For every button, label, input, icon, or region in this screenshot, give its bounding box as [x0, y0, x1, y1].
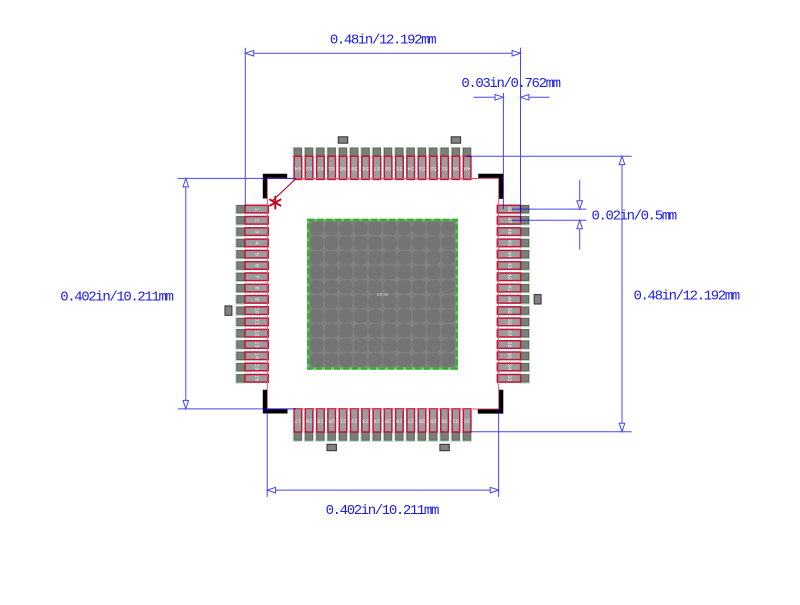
reference line pin 48 center [512, 208, 587, 210]
svg-text:33: 33 [506, 375, 512, 381]
pad 32 (pin 32) [462, 409, 472, 441]
pad 61 (pin 61) [327, 147, 336, 180]
dimension line: horizontal lead span 0.48in/12.192mm (top) [245, 50, 520, 56]
pad 7 (pin 7) [236, 272, 268, 282]
pad 54 (pin 54) [406, 147, 415, 180]
svg-text:62: 62 [317, 165, 323, 171]
extension line right of bottom dimension [498, 409, 500, 497]
svg-text:37: 37 [506, 330, 512, 336]
pad 40 (pin 40) [497, 295, 529, 305]
pad 39 (pin 39) [497, 306, 529, 316]
extension line top of left dimension [178, 177, 296, 179]
pad 64 (pin 64) [293, 147, 302, 180]
pin-1 indicator line [272, 179, 296, 201]
svg-text:0.02in/0.5mm: 0.02in/0.5mm [592, 209, 677, 225]
dimension line: package body width 0.402in/10.211mm (bottom) [267, 487, 498, 493]
pad 51 (pin 51) [440, 147, 449, 180]
pad 29 (pin 29) [429, 409, 439, 441]
svg-text:32: 32 [464, 417, 470, 423]
pad 49 (pin 49) [462, 147, 471, 180]
pad 2 (pin 2) [236, 216, 268, 226]
orientation tick pin 10 (left) [225, 306, 232, 315]
svg-text:23: 23 [362, 417, 368, 423]
pad 31 (pin 31) [451, 409, 461, 441]
pad 11 (pin 11) [236, 317, 268, 327]
svg-text:31: 31 [453, 417, 459, 423]
svg-text:10: 10 [254, 307, 260, 313]
pad 19 (pin 19) [316, 409, 326, 441]
corner bracket top-left [265, 176, 287, 199]
pad 48 (pin 48) [497, 204, 529, 214]
pad 3 (pin 3) [236, 227, 268, 237]
pad 27 (pin 27) [406, 409, 416, 441]
svg-text:19: 19 [317, 417, 323, 423]
svg-text:0.48in/12.192mm: 0.48in/12.192mm [330, 33, 436, 49]
pad 10 (pin 10) [236, 306, 268, 316]
svg-text:3: 3 [254, 230, 260, 233]
svg-text:60: 60 [340, 165, 346, 171]
extension line left of bottom dimension [266, 409, 268, 497]
pad 56 (pin 56) [383, 147, 392, 180]
EPAD courtyard outline (green dashed) [308, 220, 457, 369]
orientation tick pin 30 (bottom) [440, 444, 449, 450]
svg-text:0.402in/10.211mm: 0.402in/10.211mm [60, 289, 173, 305]
svg-text:0.03in/0.762mm: 0.03in/0.762mm [461, 76, 560, 92]
svg-text:35: 35 [506, 353, 512, 359]
svg-text:45: 45 [506, 240, 512, 246]
pin-1 marker asterisk [270, 197, 280, 209]
svg-text:28: 28 [419, 417, 425, 423]
svg-text:41: 41 [506, 285, 512, 291]
pad 57 (pin 57) [372, 147, 381, 180]
svg-text:64: 64 [295, 165, 301, 171]
extension line left of top dimension [244, 48, 246, 206]
pad 58 (pin 58) [361, 147, 370, 180]
pad 43 (pin 43) [497, 261, 529, 271]
pad 42 (pin 42) [497, 272, 529, 282]
svg-text:9: 9 [254, 298, 260, 301]
svg-text:21: 21 [340, 417, 346, 423]
svg-text:16: 16 [254, 375, 260, 381]
svg-text:24: 24 [374, 417, 380, 423]
svg-text:43: 43 [506, 262, 512, 268]
dimension line: vertical lead span 0.48in/12.192mm (right) [619, 156, 625, 432]
extension line top of right dimension [467, 155, 632, 157]
pad 28 (pin 28) [417, 409, 427, 441]
reference line pin 47 center [512, 219, 587, 221]
svg-text:17: 17 [295, 417, 301, 423]
pad 53 (pin 53) [417, 147, 426, 180]
extension line for 0.03in dimension [502, 93, 504, 209]
pad 9 (pin 9) [236, 295, 268, 305]
pad 15 (pin 15) [236, 362, 268, 372]
svg-text:7: 7 [254, 275, 260, 278]
svg-text:22: 22 [351, 417, 357, 423]
svg-text:11: 11 [254, 319, 260, 325]
pad 33 (pin 33) [497, 374, 529, 384]
svg-text:5: 5 [254, 253, 260, 256]
orientation tick pin 50 (top) [451, 137, 460, 143]
pad 4 (pin 4) [236, 238, 268, 248]
svg-text:14: 14 [254, 353, 260, 359]
pad 1 (pin 1) [236, 204, 268, 214]
pad 14 (pin 14) [236, 351, 268, 361]
pad 63 (pin 63) [304, 147, 313, 180]
svg-text:13: 13 [254, 341, 260, 347]
svg-text:55: 55 [396, 165, 402, 171]
svg-text:40: 40 [506, 296, 512, 302]
pad 60 (pin 60) [338, 147, 347, 180]
svg-text:56: 56 [385, 165, 391, 171]
svg-text:42: 42 [506, 274, 512, 280]
svg-text:46: 46 [506, 228, 512, 234]
package body outline (silkscreen) [267, 179, 498, 410]
pad 22 (pin 22) [350, 409, 360, 441]
exposed pad EPAD (thermal pad with via grid) [308, 220, 457, 369]
dimension line: 0.03in/0.762mm lead length (top right) [474, 95, 550, 101]
svg-text:53: 53 [419, 165, 425, 171]
svg-text:63: 63 [306, 165, 312, 171]
corner bracket bottom-right [478, 390, 501, 412]
svg-text:4: 4 [254, 241, 260, 244]
orientation tick pin 60 (top) [338, 137, 347, 143]
pad 25 (pin 25) [383, 409, 393, 441]
svg-text:0.48in/12.192mm: 0.48in/12.192mm [634, 289, 740, 305]
pad 47 (pin 47) [497, 216, 529, 226]
extension line bottom of left dimension [178, 408, 296, 410]
svg-text:50: 50 [453, 165, 459, 171]
svg-text:26: 26 [396, 417, 402, 423]
svg-text:57: 57 [374, 165, 380, 171]
svg-text:EPAD: EPAD [377, 292, 389, 298]
pad 37 (pin 37) [497, 328, 529, 338]
corner bracket top-right [478, 176, 501, 199]
svg-text:6: 6 [254, 264, 260, 267]
svg-text:36: 36 [506, 341, 512, 347]
svg-text:15: 15 [254, 364, 260, 370]
orientation tick pin 40 (right) [534, 295, 541, 304]
svg-text:44: 44 [506, 251, 512, 257]
extension line right of top dimension / 0.03in dimension [520, 48, 522, 221]
pad 36 (pin 36) [497, 340, 529, 350]
svg-text:59: 59 [351, 165, 357, 171]
pad 35 (pin 35) [497, 351, 529, 361]
pad 8 (pin 8) [236, 283, 268, 293]
svg-text:58: 58 [362, 165, 368, 171]
svg-text:25: 25 [385, 417, 391, 423]
pad 5 (pin 5) [236, 249, 268, 259]
svg-text:34: 34 [506, 364, 512, 370]
pad 17 (pin 17) [293, 409, 303, 441]
pad 30 (pin 30) [440, 409, 450, 441]
pad 44 (pin 44) [497, 249, 529, 259]
svg-text:12: 12 [254, 330, 260, 336]
extension line bottom of right dimension [471, 431, 632, 433]
corner bracket bottom-left [265, 390, 288, 412]
pad 21 (pin 21) [338, 409, 348, 441]
svg-text:48: 48 [506, 206, 512, 212]
svg-text:29: 29 [430, 417, 436, 423]
pad 50 (pin 50) [451, 147, 460, 180]
pad 20 (pin 20) [327, 409, 337, 441]
pad 45 (pin 45) [497, 238, 529, 248]
pad 52 (pin 52) [429, 147, 438, 180]
svg-text:61: 61 [328, 165, 334, 171]
svg-text:30: 30 [441, 417, 447, 423]
svg-text:2: 2 [254, 219, 260, 222]
svg-text:18: 18 [306, 417, 312, 423]
orientation tick pin 20 (bottom) [327, 444, 336, 450]
pad 34 (pin 34) [497, 362, 529, 372]
pad 26 (pin 26) [395, 409, 405, 441]
svg-text:0.402in/10.211mm: 0.402in/10.211mm [326, 503, 439, 519]
svg-text:51: 51 [441, 165, 447, 171]
pad 24 (pin 24) [372, 409, 382, 441]
svg-text:47: 47 [506, 217, 512, 223]
pad 23 (pin 23) [361, 409, 371, 441]
svg-text:1: 1 [254, 207, 260, 210]
svg-text:52: 52 [430, 165, 436, 171]
svg-text:49: 49 [464, 165, 470, 171]
pad 62 (pin 62) [316, 147, 325, 180]
svg-text:20: 20 [328, 417, 334, 423]
pad 59 (pin 59) [350, 147, 359, 180]
svg-text:8: 8 [254, 286, 260, 289]
svg-text:38: 38 [506, 319, 512, 325]
dimension arrows: pin pitch 0.02in/0.5mm [577, 180, 583, 250]
pad 55 (pin 55) [395, 147, 404, 180]
pad 41 (pin 41) [497, 283, 529, 293]
pad 16 (pin 16) [236, 374, 268, 384]
pad 18 (pin 18) [304, 409, 314, 441]
pad 6 (pin 6) [236, 261, 268, 271]
svg-text:54: 54 [407, 165, 413, 171]
pad 12 (pin 12) [236, 328, 268, 338]
pad 46 (pin 46) [497, 227, 529, 237]
pad 13 (pin 13) [236, 340, 268, 350]
svg-text:39: 39 [506, 307, 512, 313]
dimension line: package body height 0.402in/10.211mm (left) [183, 179, 189, 409]
pad 38 (pin 38) [497, 317, 529, 327]
svg-text:27: 27 [407, 417, 413, 423]
